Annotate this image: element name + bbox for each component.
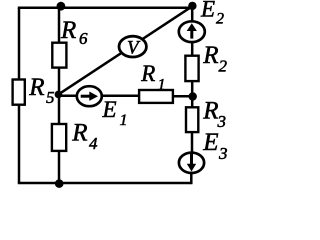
wire top horizontal bbox=[18, 6, 193, 9]
svg-text:R: R bbox=[71, 120, 87, 147]
wire diagonal voltmeter branch bbox=[58, 6, 192, 94]
svg-text:R: R bbox=[140, 61, 155, 86]
resistor R5 bbox=[13, 80, 25, 105]
resistor R6 bbox=[52, 43, 66, 68]
wire middle vertical top segment bbox=[58, 8, 61, 43]
svg-text:2: 2 bbox=[216, 11, 224, 28]
wire middle horizontal E1 to R1 bbox=[100, 94, 139, 97]
wire right vertical E2 to R2 bbox=[191, 6, 194, 57]
label R2 bbox=[202, 42, 227, 75]
label R5 bbox=[28, 74, 54, 107]
label E2 bbox=[200, 0, 224, 28]
voltage source E3 bbox=[179, 153, 204, 173]
wire right vertical R2 to node bbox=[191, 81, 194, 108]
node middle junction bbox=[55, 91, 63, 99]
wire middle horizontal R1 to node bbox=[173, 95, 193, 98]
wire middle vertical between R6 and R4 bbox=[58, 68, 61, 126]
svg-text:E: E bbox=[202, 129, 218, 156]
svg-text:R: R bbox=[202, 42, 218, 69]
svg-text:E: E bbox=[102, 97, 117, 122]
wire right vertical E3 to bottom bbox=[190, 173, 193, 185]
wire right vertical R3 to E3 bbox=[191, 132, 194, 154]
svg-text:6: 6 bbox=[79, 29, 88, 48]
voltage source E1 bbox=[77, 86, 102, 106]
svg-text:5: 5 bbox=[46, 88, 55, 107]
svg-text:2: 2 bbox=[219, 56, 228, 75]
resistor R3 bbox=[186, 107, 198, 132]
resistor R4 bbox=[52, 124, 66, 151]
label R3 bbox=[202, 97, 226, 131]
voltmeter V bbox=[119, 36, 146, 58]
svg-text:R: R bbox=[28, 74, 44, 101]
node right middle junction bbox=[189, 92, 197, 100]
wire bottom horizontal bbox=[18, 182, 192, 185]
label R4 bbox=[71, 120, 98, 153]
svg-text:1: 1 bbox=[120, 112, 128, 129]
svg-text:4: 4 bbox=[89, 134, 98, 153]
label R6 bbox=[60, 17, 88, 48]
svg-text:R: R bbox=[202, 97, 218, 124]
svg-text:R: R bbox=[60, 17, 76, 44]
label R1 bbox=[140, 61, 165, 94]
label E3 bbox=[202, 129, 227, 163]
node top-left junction bbox=[57, 2, 66, 11]
svg-text:1: 1 bbox=[158, 77, 166, 94]
node top-right E2 junction bbox=[188, 2, 196, 10]
wire left vertical bbox=[18, 8, 21, 183]
wire middle vertical bottom segment bbox=[58, 151, 61, 183]
resistor R2 bbox=[185, 56, 198, 81]
resistor R1 bbox=[139, 90, 173, 103]
svg-text:3: 3 bbox=[218, 144, 228, 163]
node bottom junction bbox=[55, 179, 64, 188]
wire middle horizontal node to E1 bbox=[58, 94, 77, 97]
svg-text:E: E bbox=[200, 0, 215, 21]
label E1 bbox=[102, 97, 128, 129]
voltage source E2 bbox=[179, 21, 205, 42]
